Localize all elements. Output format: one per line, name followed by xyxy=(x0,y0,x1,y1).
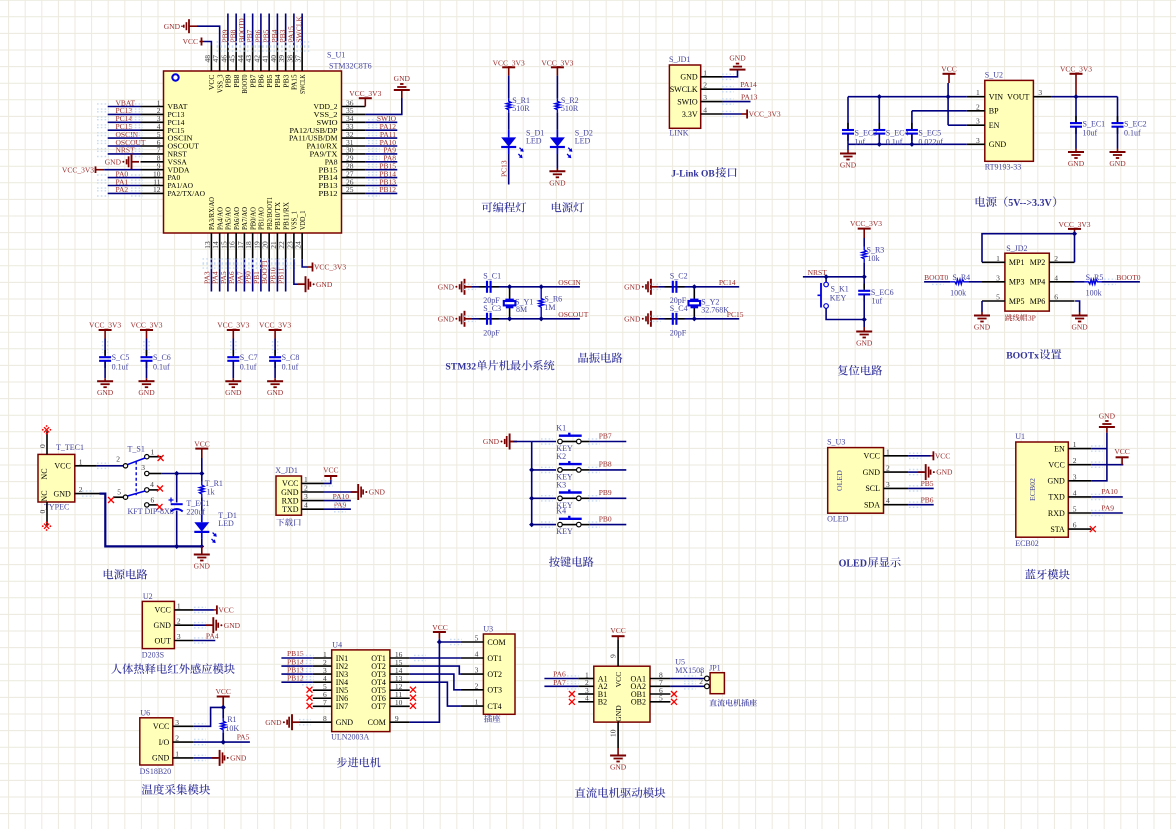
svg-text:PB8: PB8 xyxy=(599,460,612,469)
svg-text:5: 5 xyxy=(117,488,121,497)
svg-text:VCC_3V3: VCC_3V3 xyxy=(89,321,121,330)
svg-text:OB2: OB2 xyxy=(631,698,646,707)
svg-text:MP4: MP4 xyxy=(1030,278,1046,287)
svg-text:GND: GND xyxy=(729,54,746,63)
svg-text:10: 10 xyxy=(395,698,403,707)
svg-text:U6: U6 xyxy=(140,708,150,717)
svg-text:9: 9 xyxy=(609,654,618,658)
svg-text:1: 1 xyxy=(475,698,479,707)
svg-text:4: 4 xyxy=(304,501,308,510)
svg-text:3: 3 xyxy=(1073,472,1077,481)
svg-text:2: 2 xyxy=(475,681,479,690)
svg-text:2: 2 xyxy=(177,617,181,626)
svg-text:SWCLK: SWCLK xyxy=(295,16,304,43)
svg-text:VCC: VCC xyxy=(215,687,230,696)
svg-text:3: 3 xyxy=(177,632,181,641)
svg-text:VCC: VCC xyxy=(941,65,956,74)
svg-text:I/O: I/O xyxy=(159,738,170,747)
svg-text:OLED: OLED xyxy=(835,470,844,491)
svg-text:1k: 1k xyxy=(207,488,215,497)
svg-text:4: 4 xyxy=(475,650,479,659)
svg-text:0.1uf: 0.1uf xyxy=(282,362,299,371)
svg-text:K1: K1 xyxy=(556,424,566,433)
svg-text:100k: 100k xyxy=(950,288,966,297)
svg-text:32.768K: 32.768K xyxy=(701,305,729,314)
svg-text:K3: K3 xyxy=(556,480,566,489)
svg-text:GND: GND xyxy=(53,489,71,498)
svg-text:5V-->3.3V: 5V-->3.3V xyxy=(1008,198,1052,209)
svg-text:2: 2 xyxy=(1073,456,1077,465)
svg-text:MP1: MP1 xyxy=(1009,258,1025,267)
svg-text:VCC: VCC xyxy=(864,452,880,461)
svg-text:GND: GND xyxy=(230,754,247,763)
svg-text:OLED: OLED xyxy=(839,558,867,569)
svg-text:NC: NC xyxy=(40,468,49,479)
svg-text:PA14: PA14 xyxy=(740,80,757,89)
svg-text:GND: GND xyxy=(265,718,282,727)
svg-text:PC15: PC15 xyxy=(727,310,744,319)
svg-text:12: 12 xyxy=(153,185,161,194)
svg-text:VCC: VCC xyxy=(432,623,447,632)
svg-text:S_C6: S_C6 xyxy=(153,353,171,362)
svg-text:220uf: 220uf xyxy=(186,508,205,517)
svg-text:NRST: NRST xyxy=(808,268,828,277)
svg-text:COM: COM xyxy=(368,718,386,727)
svg-text:10uf: 10uf xyxy=(1083,128,1098,137)
svg-text:2: 2 xyxy=(976,102,980,111)
svg-text:24: 24 xyxy=(294,241,303,249)
svg-text:VCC_3V3: VCC_3V3 xyxy=(314,263,346,272)
svg-text:S_EC2: S_EC2 xyxy=(1124,119,1147,128)
svg-text:JP1: JP1 xyxy=(709,664,721,673)
svg-text:5: 5 xyxy=(1073,505,1077,514)
svg-text:GND: GND xyxy=(154,621,172,630)
svg-text:ECB02: ECB02 xyxy=(1015,539,1039,548)
svg-text:BOOT0: BOOT0 xyxy=(1116,273,1140,282)
svg-text:6: 6 xyxy=(151,495,155,504)
svg-text:OT1: OT1 xyxy=(487,654,502,663)
svg-text:GND: GND xyxy=(1047,477,1065,486)
svg-text:MP5: MP5 xyxy=(1009,297,1025,306)
svg-text:GND: GND xyxy=(1109,159,1126,168)
svg-text:1uf: 1uf xyxy=(855,137,866,146)
svg-text:GND: GND xyxy=(856,339,873,348)
svg-text:U2: U2 xyxy=(143,592,153,601)
svg-text:PB7: PB7 xyxy=(599,431,612,440)
svg-text:EN: EN xyxy=(989,121,1000,130)
svg-text:VCC: VCC xyxy=(194,440,209,449)
svg-text:3: 3 xyxy=(175,718,179,727)
svg-text:3: 3 xyxy=(886,480,890,489)
svg-text:37: 37 xyxy=(294,55,303,63)
svg-text:VOUT: VOUT xyxy=(1007,93,1029,102)
svg-text:3: 3 xyxy=(976,136,980,145)
svg-text:PB0: PB0 xyxy=(599,514,612,523)
svg-text:TYPEC: TYPEC xyxy=(44,503,69,512)
svg-text:T_R1: T_R1 xyxy=(205,479,223,488)
svg-text:S_U1: S_U1 xyxy=(327,51,345,60)
svg-text:3.3V: 3.3V xyxy=(682,110,698,119)
svg-text:2: 2 xyxy=(1054,254,1058,263)
svg-text:LINK: LINK xyxy=(669,129,688,138)
svg-text:LED: LED xyxy=(575,137,591,146)
svg-text:20pF: 20pF xyxy=(483,329,500,338)
svg-text:TXD: TXD xyxy=(282,505,299,514)
svg-text:VCC: VCC xyxy=(153,722,169,731)
svg-text:GND: GND xyxy=(610,763,627,772)
svg-text:OT3: OT3 xyxy=(487,686,502,695)
svg-text:KEY: KEY xyxy=(556,527,573,536)
svg-text:1: 1 xyxy=(996,254,1000,263)
svg-text:VIN: VIN xyxy=(989,93,1003,102)
svg-text:STA: STA xyxy=(1050,525,1065,534)
svg-text:OSCIN: OSCIN xyxy=(558,278,581,287)
svg-text:EN: EN xyxy=(1054,444,1065,453)
svg-text:2: 2 xyxy=(699,677,703,686)
svg-text:PA9: PA9 xyxy=(1101,503,1114,512)
svg-text:4: 4 xyxy=(1073,488,1077,497)
svg-text:SWIO: SWIO xyxy=(677,97,698,106)
svg-text:100k: 100k xyxy=(1086,288,1102,297)
svg-text:4: 4 xyxy=(703,106,707,115)
svg-text:PA4: PA4 xyxy=(206,631,219,640)
svg-text:PC14: PC14 xyxy=(719,278,736,287)
svg-text:GND: GND xyxy=(438,314,455,323)
svg-text:D203S: D203S xyxy=(142,651,164,660)
svg-text:GND: GND xyxy=(624,282,641,291)
svg-text:2: 2 xyxy=(79,485,83,494)
svg-text:0.1uf: 0.1uf xyxy=(886,137,903,146)
svg-text:VCC_3V3: VCC_3V3 xyxy=(349,89,381,98)
svg-text:CT4: CT4 xyxy=(487,702,501,711)
svg-text:2: 2 xyxy=(175,734,179,743)
svg-text:1uf: 1uf xyxy=(872,297,883,306)
svg-text:GND: GND xyxy=(138,388,155,397)
svg-text:LED: LED xyxy=(218,519,234,528)
svg-text:PA9: PA9 xyxy=(334,501,347,510)
svg-text:PA2/TX/AO: PA2/TX/AO xyxy=(168,189,206,198)
svg-text:VCC_3V3: VCC_3V3 xyxy=(62,165,94,174)
svg-text:0.1uf: 0.1uf xyxy=(112,362,129,371)
svg-text:6: 6 xyxy=(1054,293,1058,302)
svg-text:GND: GND xyxy=(840,161,857,170)
svg-text:PA7: PA7 xyxy=(553,678,566,687)
svg-text:3: 3 xyxy=(1038,88,1042,97)
svg-text:PC13: PC13 xyxy=(500,160,509,177)
svg-text:MP3: MP3 xyxy=(1009,278,1025,287)
svg-text:VCC_3V3: VCC_3V3 xyxy=(749,110,781,119)
svg-text:PB12: PB12 xyxy=(379,185,396,194)
svg-text:8: 8 xyxy=(323,714,327,723)
svg-text:5: 5 xyxy=(996,293,1000,302)
svg-text:GND: GND xyxy=(989,140,1007,149)
svg-text:VCC_3V3: VCC_3V3 xyxy=(493,58,525,67)
svg-text:NC: NC xyxy=(40,490,49,501)
svg-text:VCC: VCC xyxy=(610,626,625,635)
svg-text:0.1uf: 0.1uf xyxy=(240,362,257,371)
svg-text:3: 3 xyxy=(976,117,980,126)
svg-text:GND: GND xyxy=(614,705,623,722)
svg-text:OT7: OT7 xyxy=(371,702,386,711)
svg-text:2: 2 xyxy=(116,454,120,463)
svg-text:PB12: PB12 xyxy=(319,189,338,198)
svg-text:SCL: SCL xyxy=(865,484,880,493)
svg-text:COM: COM xyxy=(487,638,505,647)
svg-text:BP: BP xyxy=(989,107,999,116)
svg-text:1: 1 xyxy=(177,601,181,610)
svg-text:GND: GND xyxy=(316,280,333,289)
svg-text:GND: GND xyxy=(336,718,354,727)
svg-text:VCC_3V3: VCC_3V3 xyxy=(1058,220,1090,229)
svg-text:GND: GND xyxy=(97,388,114,397)
svg-text:KFT DIP-8X8: KFT DIP-8X8 xyxy=(128,507,174,516)
svg-text:K4: K4 xyxy=(556,507,566,516)
svg-text:3: 3 xyxy=(703,93,707,102)
svg-text:PB5: PB5 xyxy=(921,479,934,488)
svg-text:GND: GND xyxy=(1099,411,1116,420)
svg-text:PB6: PB6 xyxy=(921,495,934,504)
svg-text:GND: GND xyxy=(1071,323,1088,332)
svg-text:VCC: VCC xyxy=(1048,461,1064,470)
svg-text:3: 3 xyxy=(141,463,145,472)
svg-text:S_C1: S_C1 xyxy=(483,272,501,281)
svg-text:U1: U1 xyxy=(1015,432,1025,441)
svg-text:PA5: PA5 xyxy=(237,733,250,742)
svg-text:MP6: MP6 xyxy=(1030,297,1046,306)
svg-text:0: 0 xyxy=(38,510,47,514)
svg-text:NRST: NRST xyxy=(116,146,136,155)
svg-text:VCC: VCC xyxy=(154,606,170,615)
svg-text:4: 4 xyxy=(1054,273,1058,282)
svg-text:1M: 1M xyxy=(544,303,555,312)
svg-text:10: 10 xyxy=(609,729,618,737)
svg-text:GND: GND xyxy=(369,488,386,497)
svg-text:S_U2: S_U2 xyxy=(985,71,1003,80)
svg-text:BOOT0: BOOT0 xyxy=(924,273,948,282)
svg-text:1: 1 xyxy=(175,749,179,758)
svg-text:0.1uf: 0.1uf xyxy=(153,362,170,371)
svg-text:1: 1 xyxy=(79,457,83,466)
svg-text:PA10: PA10 xyxy=(1101,487,1118,496)
svg-text:3P: 3P xyxy=(1028,314,1036,323)
svg-text:9: 9 xyxy=(395,714,399,723)
svg-text:GND: GND xyxy=(863,468,881,477)
svg-text:VDD_1: VDD_1 xyxy=(298,210,307,230)
svg-text:J-Link OB: J-Link OB xyxy=(671,170,715,180)
svg-text:PA2: PA2 xyxy=(116,185,129,194)
svg-text:SWCLK: SWCLK xyxy=(298,74,307,94)
svg-text:VCC_3V3: VCC_3V3 xyxy=(130,321,162,330)
svg-text:S_C3: S_C3 xyxy=(483,304,501,313)
svg-text:GND: GND xyxy=(974,323,991,332)
svg-text:GND: GND xyxy=(194,562,211,571)
svg-text:T_EC1: T_EC1 xyxy=(186,499,209,508)
svg-text:1: 1 xyxy=(1073,440,1077,449)
svg-text:B2: B2 xyxy=(598,698,607,707)
svg-text:GND: GND xyxy=(152,754,170,763)
svg-text:SWCLK: SWCLK xyxy=(670,85,698,94)
svg-text:GND: GND xyxy=(1068,159,1085,168)
svg-text:VCC: VCC xyxy=(183,37,198,46)
svg-text:LED: LED xyxy=(526,137,542,146)
svg-text:OUT: OUT xyxy=(154,636,171,645)
svg-text:GND: GND xyxy=(164,22,181,31)
svg-text:VCC: VCC xyxy=(218,606,233,615)
svg-text:6: 6 xyxy=(1073,521,1077,530)
svg-text:OSCOUT: OSCOUT xyxy=(558,310,588,319)
svg-text:GND: GND xyxy=(438,282,455,291)
svg-text:VCC: VCC xyxy=(614,672,623,688)
svg-text:10k: 10k xyxy=(868,254,880,263)
svg-text:R1: R1 xyxy=(227,715,236,724)
svg-text:S_EC4: S_EC4 xyxy=(886,128,909,137)
svg-text:U3: U3 xyxy=(483,625,493,634)
svg-text:BOOTx: BOOTx xyxy=(1006,351,1039,362)
svg-text:S_U3: S_U3 xyxy=(827,438,845,447)
svg-text:GND: GND xyxy=(224,621,241,630)
svg-text:T_S1: T_S1 xyxy=(128,445,145,454)
svg-text:7: 7 xyxy=(323,698,327,707)
svg-text:0: 0 xyxy=(38,444,47,448)
svg-text:1: 1 xyxy=(703,68,707,77)
svg-text:KEY: KEY xyxy=(830,293,847,302)
svg-text:IN7: IN7 xyxy=(336,702,348,711)
svg-text:VCC_3V3: VCC_3V3 xyxy=(217,321,249,330)
svg-text:VCC: VCC xyxy=(323,465,338,474)
svg-text:RT9193-33: RT9193-33 xyxy=(985,163,1021,172)
svg-text:2: 2 xyxy=(703,81,707,90)
svg-text:4: 4 xyxy=(150,480,154,489)
svg-text:S_C5: S_C5 xyxy=(112,353,130,362)
svg-text:S_JD2: S_JD2 xyxy=(1006,244,1027,253)
svg-text:ULN2003A: ULN2003A xyxy=(331,733,369,742)
svg-text:U4: U4 xyxy=(332,641,342,650)
svg-text:X_JD1: X_JD1 xyxy=(275,466,298,475)
svg-text:GND: GND xyxy=(936,468,953,477)
svg-text:1: 1 xyxy=(886,447,890,456)
svg-text:PB11: PB11 xyxy=(277,267,286,284)
svg-text:PA13: PA13 xyxy=(741,93,758,102)
svg-text:S_C8: S_C8 xyxy=(282,353,300,362)
svg-text:S_R4: S_R4 xyxy=(952,273,970,282)
svg-text:8M: 8M xyxy=(516,305,527,314)
svg-text:DS18B20: DS18B20 xyxy=(140,767,172,776)
svg-text:OLED: OLED xyxy=(827,515,849,524)
svg-text:20pF: 20pF xyxy=(670,329,687,338)
svg-text:GND: GND xyxy=(225,388,242,397)
svg-text:5: 5 xyxy=(659,694,663,703)
svg-text:VCC: VCC xyxy=(935,451,950,460)
svg-text:3: 3 xyxy=(475,666,479,675)
svg-text:MP2: MP2 xyxy=(1030,258,1046,267)
svg-text:ECB02: ECB02 xyxy=(1028,478,1037,501)
svg-text:GND: GND xyxy=(624,314,641,323)
svg-text:VCC: VCC xyxy=(1114,447,1129,456)
svg-text:S_EC1: S_EC1 xyxy=(1083,119,1106,128)
svg-text:S_C4: S_C4 xyxy=(670,304,688,313)
svg-text:VCC_3V3: VCC_3V3 xyxy=(1060,65,1092,74)
svg-text:S_R5: S_R5 xyxy=(1086,273,1104,282)
svg-text:4: 4 xyxy=(585,694,589,703)
svg-text:SDA: SDA xyxy=(864,501,880,510)
svg-text:K2: K2 xyxy=(556,452,566,461)
svg-text:PB9: PB9 xyxy=(599,488,612,497)
svg-text:5: 5 xyxy=(475,634,479,643)
svg-text:GND: GND xyxy=(267,388,284,397)
svg-text:4: 4 xyxy=(886,496,890,505)
svg-text:1: 1 xyxy=(976,88,980,97)
svg-text:GND: GND xyxy=(549,178,566,187)
svg-text:3: 3 xyxy=(996,273,1000,282)
svg-text:0.1uf: 0.1uf xyxy=(1124,128,1141,137)
svg-text:PB12: PB12 xyxy=(287,673,304,682)
svg-text:S_JD1: S_JD1 xyxy=(669,55,690,64)
svg-text:25: 25 xyxy=(346,185,354,194)
svg-text:GND: GND xyxy=(394,74,411,83)
svg-text:510R: 510R xyxy=(512,104,530,113)
svg-text:RXD: RXD xyxy=(1048,509,1065,518)
svg-text:VCC: VCC xyxy=(54,462,70,471)
svg-text:VCC_3V3: VCC_3V3 xyxy=(850,219,882,228)
svg-text:S_C7: S_C7 xyxy=(240,353,258,362)
svg-text:0.022uf: 0.022uf xyxy=(918,137,943,146)
svg-text:STM32: STM32 xyxy=(445,362,476,373)
svg-text:2: 2 xyxy=(886,464,890,473)
svg-text:S_K1: S_K1 xyxy=(831,285,849,294)
svg-text:GND: GND xyxy=(105,157,122,166)
svg-text:GND: GND xyxy=(483,437,500,446)
svg-text:S_C2: S_C2 xyxy=(670,272,688,281)
svg-text:VCC_3V3: VCC_3V3 xyxy=(259,321,291,330)
svg-text:STM32C8T6: STM32C8T6 xyxy=(329,62,372,71)
svg-text:VCC_3V3: VCC_3V3 xyxy=(541,58,573,67)
svg-text:510R: 510R xyxy=(561,104,579,113)
svg-text:TXD: TXD xyxy=(1048,493,1065,502)
svg-text:GND: GND xyxy=(680,73,698,82)
svg-text:1: 1 xyxy=(151,447,155,456)
svg-text:S_EC5: S_EC5 xyxy=(918,128,941,137)
svg-text:OT2: OT2 xyxy=(487,670,502,679)
svg-text:T_TEC1: T_TEC1 xyxy=(56,443,84,452)
